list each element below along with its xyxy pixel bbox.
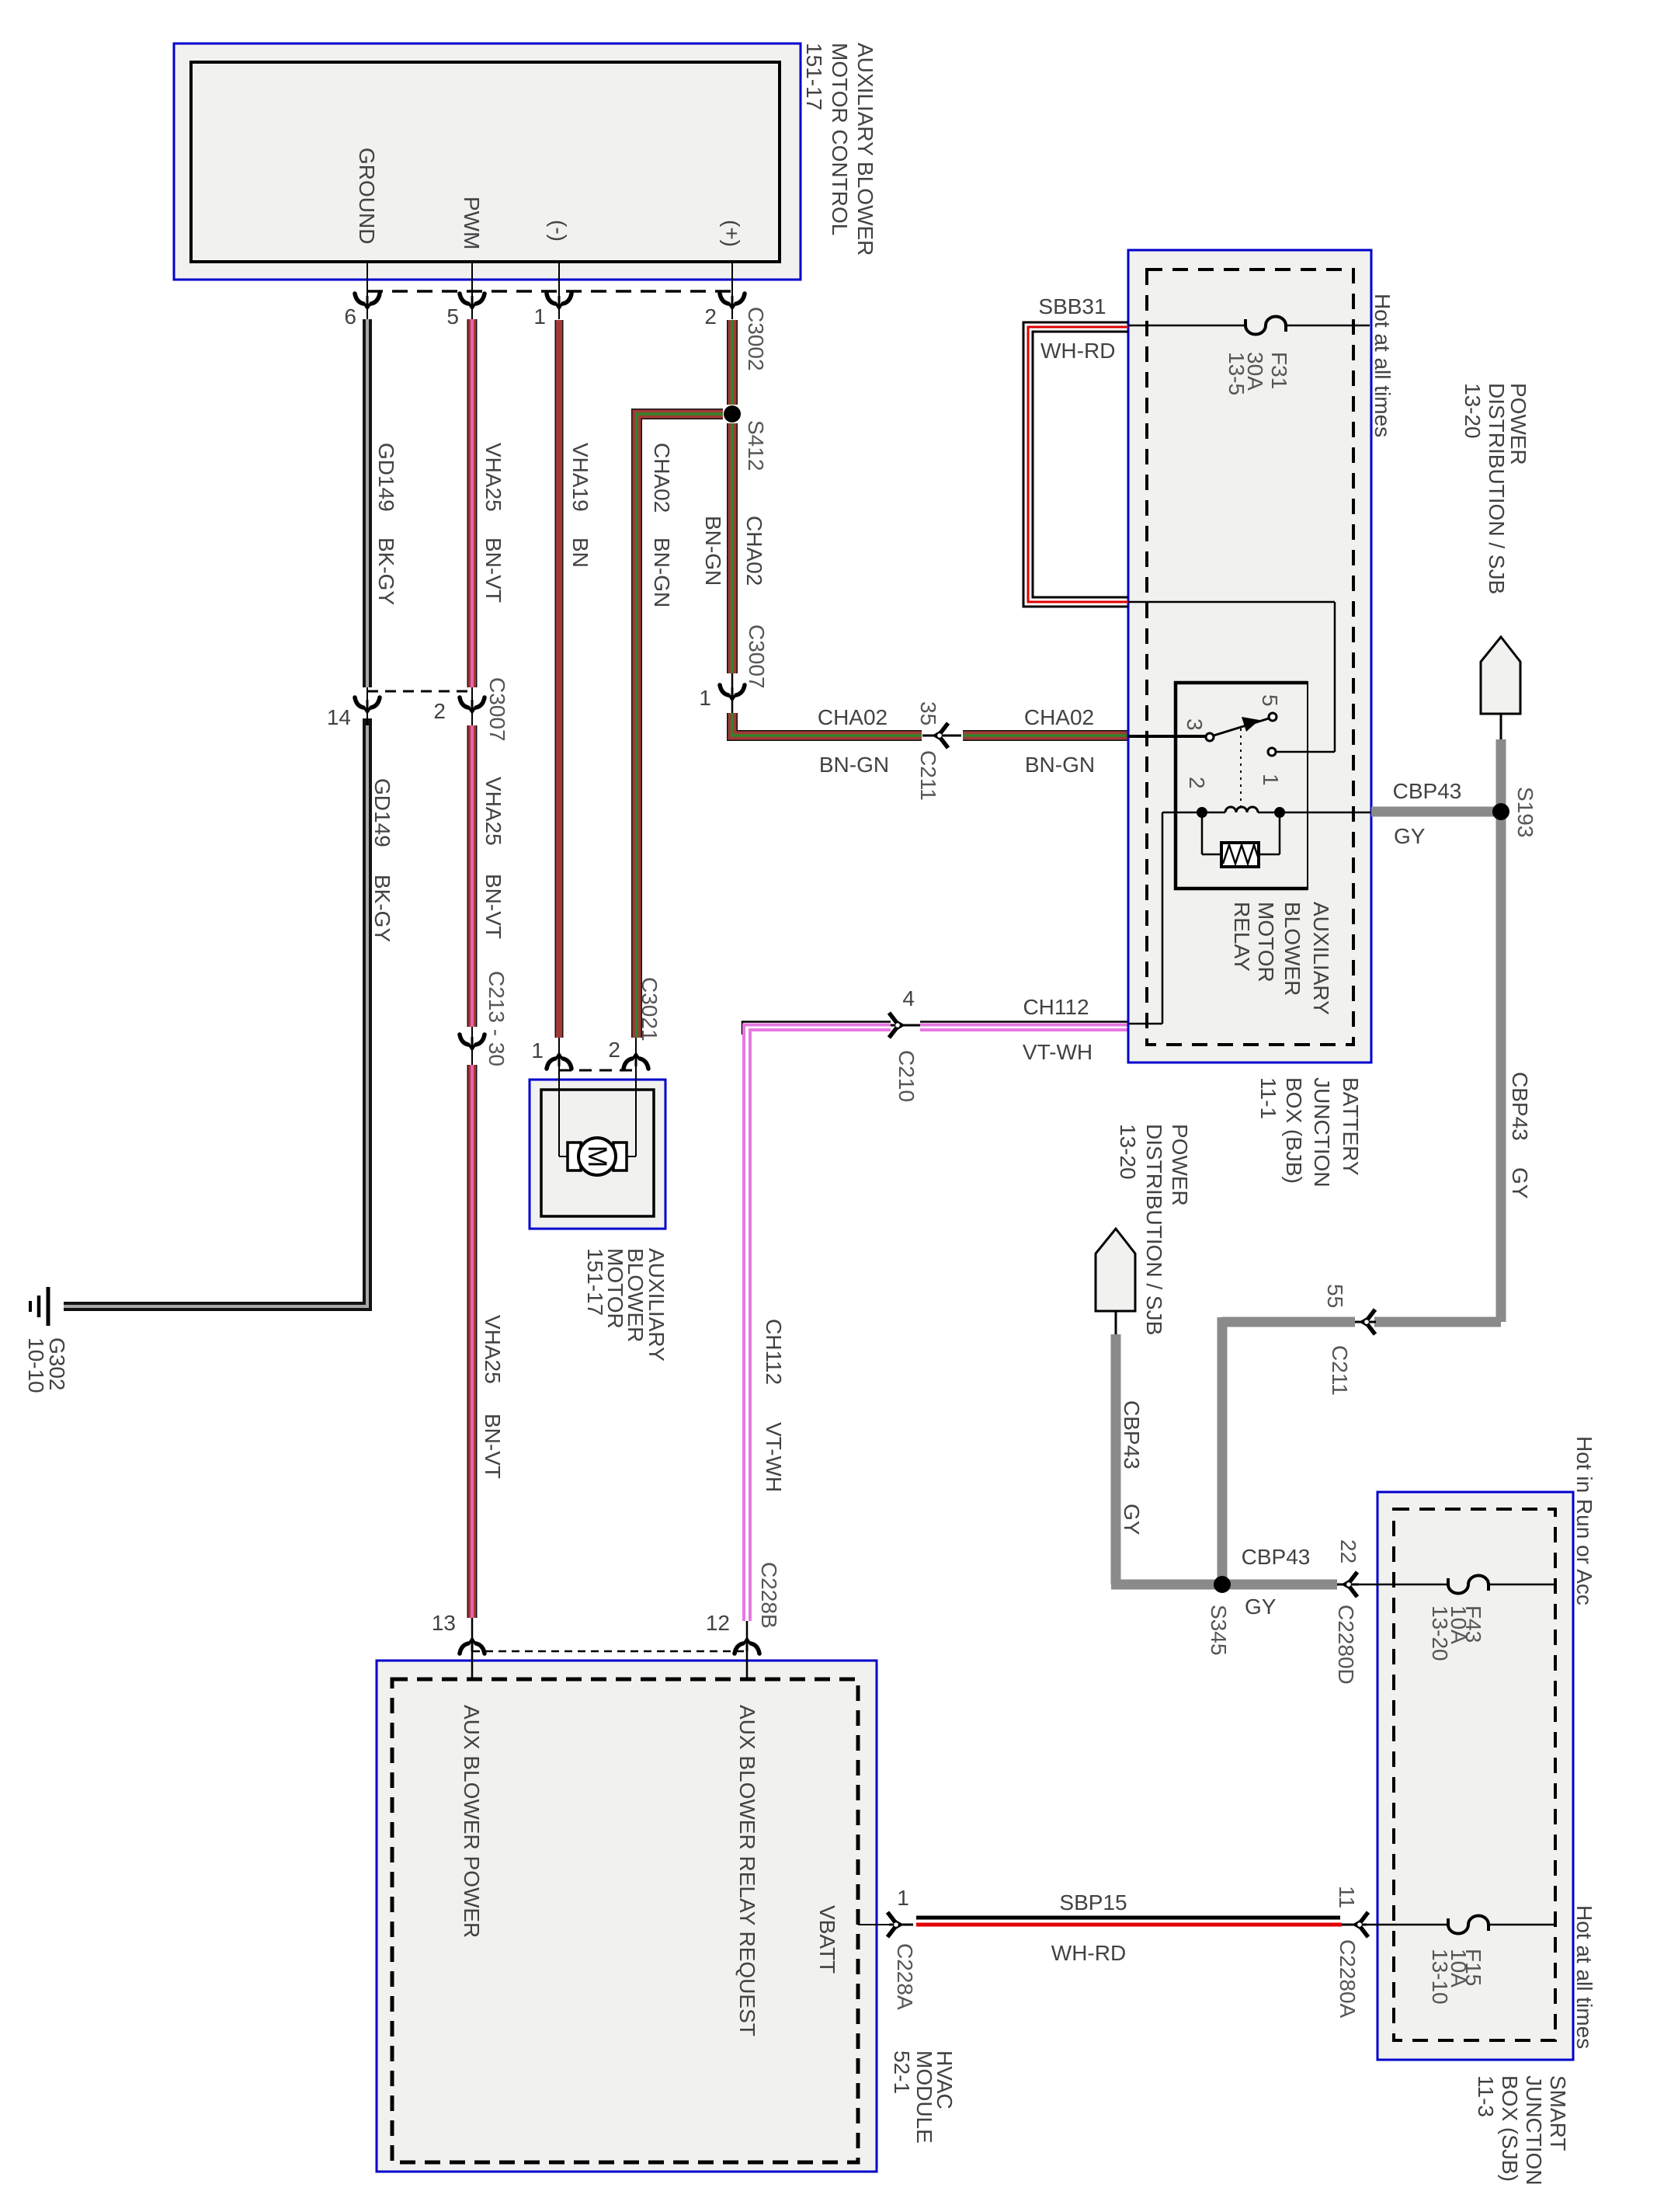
pin stub 2 xyxy=(731,262,733,319)
connector arrow pin 5 xyxy=(460,294,485,311)
label AUXILIARY BLOWER MOTOR CONTROL 151-17 xyxy=(802,43,877,256)
connector arrow C3007 pin 14 xyxy=(355,697,380,715)
svg-text:BN-VT: BN-VT xyxy=(481,1414,505,1479)
connector C3021 arrows pins 1,2 xyxy=(547,1052,571,1069)
label HVAC MODULE 52-1 xyxy=(890,2050,957,2144)
svg-text:SBP15: SBP15 xyxy=(1059,1890,1127,1915)
svg-text:Hot at all times: Hot at all times xyxy=(1572,1905,1596,2049)
svg-text:CH112: CH112 xyxy=(762,1319,786,1385)
svg-text:C213 - 30: C213 - 30 xyxy=(485,971,509,1066)
svg-text:13-20: 13-20 xyxy=(1461,383,1485,439)
svg-text:C3007: C3007 xyxy=(485,677,509,742)
fuse F43 symbol xyxy=(1448,1576,1489,1594)
svg-text:13-5: 13-5 xyxy=(1225,352,1249,395)
svg-text:10-10: 10-10 xyxy=(24,1337,48,1393)
wire CBP43 GY from pentagon to S193 xyxy=(1496,739,1506,1322)
svg-text:13-10: 13-10 xyxy=(1428,1949,1452,2005)
svg-text:C210: C210 xyxy=(895,1050,919,1102)
svg-text:WH-RD: WH-RD xyxy=(1040,339,1115,363)
svg-text:GD149: GD149 xyxy=(370,778,394,847)
svg-text:VHA25: VHA25 xyxy=(481,777,505,846)
svg-text:VHA19: VHA19 xyxy=(568,443,592,512)
pin stub 1 xyxy=(558,262,560,319)
svg-text:5: 5 xyxy=(1258,694,1282,707)
svg-text:C211: C211 xyxy=(916,750,940,801)
svg-text:BN-GN: BN-GN xyxy=(1025,753,1095,777)
wire into SJB to fuse F15 xyxy=(1365,1924,1448,1926)
pin 1 VBATT wire xyxy=(858,1924,893,1925)
svg-text:C228A: C228A xyxy=(893,1943,917,2010)
fuse F31 symbol xyxy=(1245,317,1286,335)
inline connector C211 pin 35 arrow xyxy=(922,735,961,737)
relay coil output to CBP43 xyxy=(1285,812,1371,814)
connector C2280A pin 11 arrow xyxy=(1342,1924,1367,1926)
svg-text:3: 3 xyxy=(1183,718,1207,731)
svg-text:DISTRIBUTION / SJB: DISTRIBUTION / SJB xyxy=(1485,383,1509,594)
svg-text:12: 12 xyxy=(706,1611,730,1635)
svg-text:GD149: GD149 xyxy=(374,443,398,512)
connector arrow C3007 pin 1 on CHA02 xyxy=(731,673,734,713)
svg-text:AUXILIARY BLOWER: AUXILIARY BLOWER xyxy=(853,43,877,256)
svg-text:M: M xyxy=(582,1146,612,1167)
motor internal wires xyxy=(558,1067,560,1156)
svg-text:CBP43: CBP43 xyxy=(1393,779,1462,803)
wire CBP43 GY horizontal to C211 xyxy=(1374,1317,1501,1327)
splice S193 xyxy=(1492,803,1509,820)
relay coil xyxy=(1162,812,1225,814)
svg-text:C2280A: C2280A xyxy=(1336,1939,1360,2019)
svg-text:13-20: 13-20 xyxy=(1428,1605,1452,1661)
svg-text:S193: S193 xyxy=(1513,787,1537,837)
svg-text:4: 4 xyxy=(902,986,915,1010)
svg-text:MOTOR: MOTOR xyxy=(1254,902,1278,983)
splice S345 xyxy=(1214,1576,1231,1593)
wire CBP43 GY horizontal to S345 and C2280D xyxy=(1111,1580,1337,1590)
svg-text:JUNCTION: JUNCTION xyxy=(1310,1077,1334,1188)
svg-text:VT-WH: VT-WH xyxy=(762,1422,786,1492)
relay pin 5 contact xyxy=(1269,713,1277,721)
svg-text:C2280D: C2280D xyxy=(1334,1605,1358,1685)
relay blade to pin 5 xyxy=(1214,718,1269,736)
svg-text:11: 11 xyxy=(1335,1886,1359,1908)
relay actuation dotted line xyxy=(1240,729,1242,806)
connector arrow pin 6 xyxy=(355,294,380,311)
svg-text:CH112: CH112 xyxy=(1023,995,1089,1019)
relay suppression resistor xyxy=(1201,812,1204,854)
svg-text:BLOWER: BLOWER xyxy=(1280,902,1304,996)
svg-text:AUX BLOWER RELAY REQUEST: AUX BLOWER RELAY REQUEST xyxy=(735,1705,759,2036)
connector arrow C3007 pin 2 xyxy=(460,697,485,715)
svg-text:BN-GN: BN-GN xyxy=(701,516,725,586)
svg-text:55: 55 xyxy=(1323,1284,1347,1308)
wire CH112 VT-WH horizontal and vertical xyxy=(742,1022,891,1035)
wire VHA25 BN-VT vertical (pin 5) xyxy=(467,319,478,687)
svg-text:MOTOR CONTROL: MOTOR CONTROL xyxy=(828,43,852,235)
connector C3021 dashed line xyxy=(559,1069,636,1072)
relay pin 3 lead xyxy=(1128,735,1206,738)
motor brush terminals xyxy=(568,1143,581,1170)
connector arrow pin 1 xyxy=(547,294,571,311)
wire SBB31 WH-RD loop xyxy=(1023,322,1128,607)
component box: AUXILIARY BLOWER MOTOR CONTROL xyxy=(174,43,801,280)
label POWER DISTRIBUTION / SJB 13-20 (2) xyxy=(1116,1124,1192,1335)
svg-text:C211: C211 xyxy=(1328,1345,1352,1396)
pin stub 5 xyxy=(471,262,473,319)
component box: SMART JUNCTION BOX (SJB) xyxy=(1377,1492,1573,2060)
connector arrow pin 2 xyxy=(720,294,745,311)
svg-text:1: 1 xyxy=(533,304,546,329)
svg-text:52-1: 52-1 xyxy=(890,2050,914,2094)
label AUXILIARY BLOWER MOTOR 151-17 xyxy=(583,1248,669,1362)
svg-text:S345: S345 xyxy=(1207,1605,1231,1655)
svg-text:AUXILIARY: AUXILIARY xyxy=(1309,902,1333,1015)
svg-text:JUNCTION: JUNCTION xyxy=(1522,2075,1546,2186)
svg-text:CBP43: CBP43 xyxy=(1120,1400,1144,1469)
svg-text:151-17: 151-17 xyxy=(802,43,826,110)
svg-text:MODULE: MODULE xyxy=(912,2050,936,2144)
svg-text:VHA25: VHA25 xyxy=(481,443,505,512)
relay pin 1 contact xyxy=(1268,748,1276,756)
svg-text:GY: GY xyxy=(1120,1504,1144,1536)
motor M circle xyxy=(578,1138,616,1175)
svg-text:SMART: SMART xyxy=(1546,2075,1570,2151)
power feed pentagon 2 xyxy=(1096,1229,1135,1311)
svg-text:6: 6 xyxy=(344,304,356,329)
svg-text:2: 2 xyxy=(1185,777,1209,789)
wire CBP43 GY down to S345 xyxy=(1218,1317,1228,1584)
svg-text:1: 1 xyxy=(897,1886,909,1910)
svg-text:C3007: C3007 xyxy=(745,624,769,689)
svg-text:11-3: 11-3 xyxy=(1474,2075,1498,2117)
svg-text:Hot in Run or Acc: Hot in Run or Acc xyxy=(1572,1436,1596,1605)
svg-text:CHA02: CHA02 xyxy=(1024,705,1094,729)
svg-text:1: 1 xyxy=(699,686,711,710)
inline connector C2280D pin 22 arrow xyxy=(1337,1584,1359,1586)
svg-text:VBATT: VBATT xyxy=(815,1905,839,1974)
component box: BATTERY JUNCTION BOX (BJB) xyxy=(1128,250,1371,1063)
power feed pentagon (POWER DISTRIBUTION / SJB 13-20) xyxy=(1481,637,1520,714)
svg-text:POWER: POWER xyxy=(1168,1124,1192,1206)
pin stub 6 xyxy=(366,262,368,319)
wire CHA02 BN-GN vertical (pin 2) xyxy=(727,320,738,405)
wire CBP43 GY from pentagon 2 xyxy=(1111,1334,1121,1584)
svg-text:(+): (+) xyxy=(720,220,744,247)
inline connector C211 pin 55 arrow xyxy=(1355,1321,1376,1323)
svg-text:RELAY: RELAY xyxy=(1230,902,1254,972)
wire SBP15 WH-RD xyxy=(916,1916,1340,1920)
wire VHA19 BN vertical (pin 1) xyxy=(555,320,564,1038)
svg-text:CBP43: CBP43 xyxy=(1508,1072,1532,1141)
wire CBP43 GY from relay xyxy=(1371,807,1501,817)
inline connector C213-30 arrow xyxy=(471,1027,473,1065)
svg-text:13-20: 13-20 xyxy=(1116,1124,1140,1180)
connector C228A pin 1 arrow xyxy=(889,1924,913,1926)
svg-text:Hot at all times: Hot at all times xyxy=(1370,294,1395,437)
svg-text:BK-GY: BK-GY xyxy=(374,537,398,605)
component box: AUXILIARY BLOWER MOTOR xyxy=(530,1080,665,1229)
svg-text:VHA25: VHA25 xyxy=(481,1315,505,1384)
svg-text:GY: GY xyxy=(1245,1595,1277,1619)
svg-text:BN-VT: BN-VT xyxy=(481,874,505,939)
fuse F15 symbol xyxy=(1448,1916,1489,1934)
svg-text:2: 2 xyxy=(704,304,717,329)
svg-text:(-): (-) xyxy=(547,220,571,242)
svg-text:C3021: C3021 xyxy=(637,977,662,1042)
ground G302 symbol xyxy=(30,1287,48,1326)
inline connector C210 pin 4 arrow xyxy=(891,1024,920,1027)
svg-text:BN-VT: BN-VT xyxy=(481,537,505,603)
svg-text:14: 14 xyxy=(327,705,351,729)
svg-text:1: 1 xyxy=(1259,774,1283,786)
svg-text:F31: F31 xyxy=(1267,352,1291,389)
svg-text:2: 2 xyxy=(608,1038,620,1062)
wire GD149 BK-GY vertical (pin 6) xyxy=(363,319,372,687)
svg-text:5: 5 xyxy=(446,304,459,329)
BJB internal rail from SBB31 to relay pin 1 xyxy=(1128,601,1335,603)
svg-text:SBB31: SBB31 xyxy=(1038,294,1106,318)
svg-text:WH-RD: WH-RD xyxy=(1051,1941,1126,1965)
svg-text:CHA02: CHA02 xyxy=(650,443,674,513)
svg-text:CHA02: CHA02 xyxy=(818,705,888,729)
svg-text:C3002: C3002 xyxy=(744,307,768,371)
svg-text:11-1: 11-1 xyxy=(1256,1077,1280,1119)
connector C3007 dashed link xyxy=(367,690,472,693)
svg-text:1: 1 xyxy=(531,1038,544,1063)
svg-text:BN-GN: BN-GN xyxy=(819,753,889,777)
relay pin 3 contact xyxy=(1206,733,1214,741)
splice S412 xyxy=(724,405,741,423)
svg-text:C228B: C228B xyxy=(757,1562,781,1629)
svg-text:AUX BLOWER POWER: AUX BLOWER POWER xyxy=(460,1705,484,1938)
BJB label xyxy=(1256,1077,1363,1188)
wire CHA02 BN-GN corner to horizontal xyxy=(732,713,922,736)
svg-text:GROUND: GROUND xyxy=(355,148,379,244)
connector C3007 stems xyxy=(366,687,368,725)
svg-text:BATTERY: BATTERY xyxy=(1339,1077,1363,1176)
svg-text:DISTRIBUTION / SJB: DISTRIBUTION / SJB xyxy=(1142,1124,1166,1335)
SJB label xyxy=(1474,2075,1570,2186)
svg-text:13: 13 xyxy=(432,1611,456,1635)
svg-text:BOX (BJB): BOX (BJB) xyxy=(1282,1077,1306,1184)
svg-text:35: 35 xyxy=(916,701,940,725)
svg-text:CBP43: CBP43 xyxy=(1242,1545,1311,1569)
svg-text:22: 22 xyxy=(1336,1539,1360,1563)
connector C3002 dashed line xyxy=(367,290,732,293)
svg-text:BK-GY: BK-GY xyxy=(370,875,394,942)
svg-text:151-17: 151-17 xyxy=(583,1248,607,1316)
relay label xyxy=(1230,902,1333,1015)
connector stubs HVAC pins xyxy=(471,1618,474,1679)
wire into SJB to fuse F43 xyxy=(1357,1584,1448,1586)
svg-text:BOX (SJB): BOX (SJB) xyxy=(1498,2075,1522,2182)
wire CHA02 BN-GN branch to motor pin 2 xyxy=(637,414,723,1038)
fuse F31 wire xyxy=(1128,325,1244,327)
svg-text:2: 2 xyxy=(433,699,446,723)
svg-text:GY: GY xyxy=(1394,824,1426,848)
component box: HVAC MODULE xyxy=(377,1661,877,2172)
svg-text:VT-WH: VT-WH xyxy=(1023,1040,1093,1064)
svg-text:POWER: POWER xyxy=(1506,383,1530,465)
svg-text:S412: S412 xyxy=(744,420,768,471)
svg-text:GY: GY xyxy=(1508,1167,1532,1199)
svg-text:BN: BN xyxy=(568,537,592,568)
connector C228B dashed link xyxy=(472,1650,747,1653)
connector arrows HVAC pins 13,12 xyxy=(460,1636,485,1654)
svg-text:PWM: PWM xyxy=(460,197,484,249)
label POWER DISTRIBUTION / SJB 13-20 xyxy=(1461,383,1530,594)
connector C3021 stubs xyxy=(558,1038,560,1070)
svg-text:CHA02: CHA02 xyxy=(742,516,766,586)
svg-text:BN-GN: BN-GN xyxy=(650,537,674,607)
relay pin 2 lead to CH112 xyxy=(1162,812,1164,1024)
relay: AUXILIARY BLOWER MOTOR RELAY xyxy=(1176,683,1308,889)
